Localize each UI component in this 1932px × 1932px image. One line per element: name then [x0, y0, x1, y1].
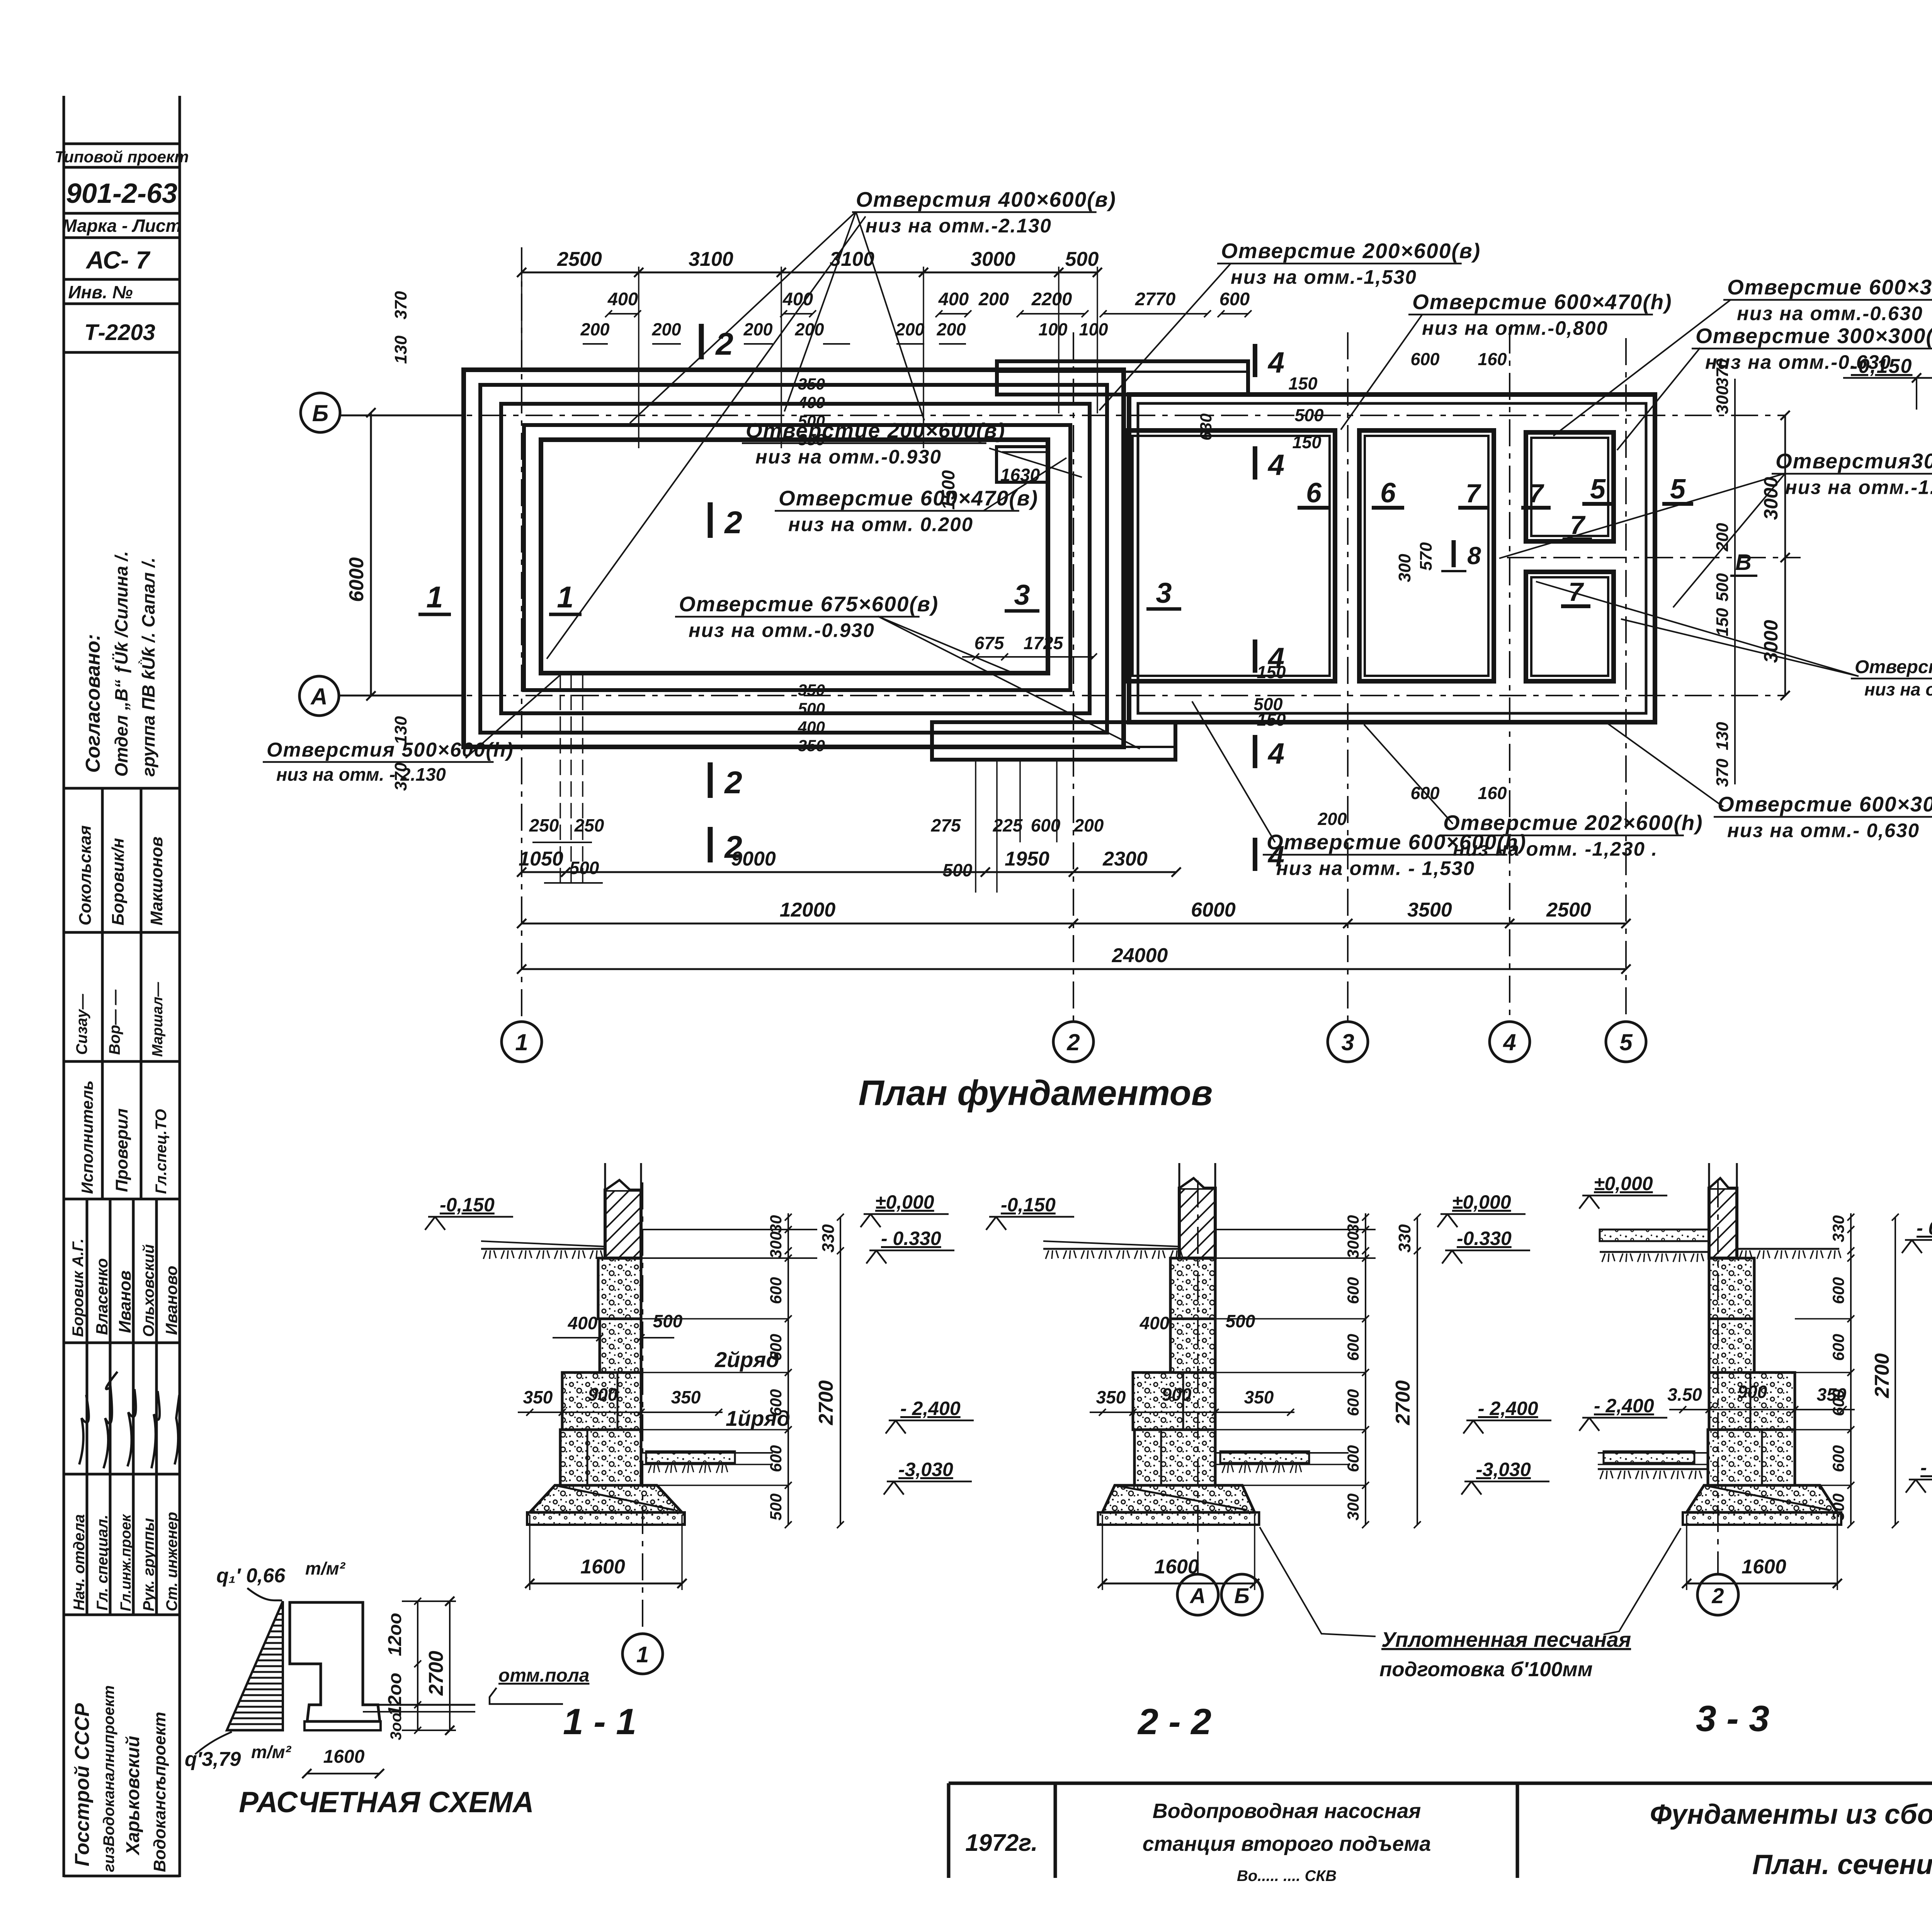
- 1-1 course extension lines: [641, 1318, 788, 1320]
- svg-text:600: 600: [767, 1334, 785, 1361]
- svg-text:600: 600: [767, 1445, 785, 1472]
- svg-text:500: 500: [767, 1493, 785, 1520]
- svg-text:600: 600: [1829, 1445, 1847, 1472]
- load triangle: [227, 1601, 283, 1730]
- svg-text:200: 200: [1317, 809, 1347, 829]
- svg-text:1600: 1600: [323, 1747, 365, 1767]
- svg-text:3: 3: [1014, 579, 1030, 611]
- plan: room 3: [1127, 430, 1335, 681]
- bottom dim row 24000: [522, 968, 1626, 970]
- svg-text:низ на отм.-0,630: низ на отм.-0,630: [1864, 679, 1932, 699]
- svg-text:Иванов: Иванов: [116, 1270, 134, 1333]
- svg-text:500: 500: [1294, 405, 1323, 425]
- svg-text:-0,150: -0,150: [440, 1194, 495, 1216]
- svg-text:- 0.330: - 0.330: [881, 1228, 941, 1249]
- dims 12oo/12oo/3oo and 2700: [417, 1601, 418, 1730]
- svg-text:Водопроводная насосная: Водопроводная насосная: [1153, 1799, 1421, 1823]
- svg-text:160: 160: [1478, 349, 1507, 369]
- svg-text:Отверстие 600×470(h): Отверстие 600×470(h): [1412, 290, 1672, 314]
- svg-text:12oo: 12oo: [385, 1673, 405, 1716]
- sheet left title-block sidebar: [64, 96, 180, 1877]
- svg-text:низ на отм.-1.230: низ на отм.-1.230: [1785, 476, 1932, 498]
- axis circle Б: [301, 393, 340, 432]
- svg-text:Отверстие 600×300(h): Отверстие 600×300(h): [1718, 792, 1932, 816]
- svg-text:низ на отм.- 0,630: низ на отм.- 0,630: [1727, 819, 1920, 841]
- 1-1 wall top continuation: [604, 1163, 606, 1190]
- svg-text:Отверстия300×600(h): Отверстия300×600(h): [1776, 449, 1932, 473]
- svg-text:500: 500: [1065, 248, 1099, 270]
- plan: room 7 bottom: [1526, 572, 1614, 681]
- svg-text:130: 130: [391, 335, 410, 364]
- svg-text:Водокансѣпроект: Водокансѣпроект: [150, 1712, 169, 1872]
- svg-text:Вор— —: Вор— —: [106, 989, 123, 1055]
- svg-text:Сизау—: Сизау—: [73, 993, 90, 1055]
- svg-text:-0.330: -0.330: [1457, 1228, 1512, 1249]
- svg-text:Отверстие 600×600(h): Отверстие 600×600(h): [1267, 830, 1527, 854]
- svg-text:- 0.330: - 0.330: [1917, 1217, 1932, 1239]
- svg-text:низ на отм.-0.630: низ на отм.-0.630: [1737, 302, 1923, 324]
- svg-text:675: 675: [975, 633, 1005, 653]
- svg-text:3000: 3000: [971, 248, 1015, 270]
- svg-text:370: 370: [391, 291, 410, 320]
- svg-text:Отверстие 675×600(в): Отверстие 675×600(в): [679, 592, 939, 616]
- svg-text:низ на отм.-0.930: низ на отм.-0.930: [689, 619, 875, 641]
- svg-text:отм.пола: отм.пола: [498, 1665, 589, 1686]
- section cut marks |2: [699, 324, 704, 359]
- svg-text:2500: 2500: [557, 248, 602, 270]
- svg-text:300: 300: [1829, 1493, 1847, 1520]
- svg-text:2: 2: [724, 830, 742, 865]
- svg-text:1050: 1050: [519, 848, 563, 870]
- svg-text:6: 6: [1380, 478, 1396, 509]
- svg-text:30: 30: [1344, 1215, 1362, 1233]
- 1-1 tufts under basement slab: [648, 1465, 660, 1473]
- 3-3 right dim chain: [1850, 1213, 1852, 1525]
- bottom dim row 12000/6000/3500/2500: [522, 923, 1626, 925]
- 2-2 right dim chain: [1365, 1213, 1366, 1525]
- svg-text:630: 630: [1197, 413, 1215, 440]
- svg-text:1600: 1600: [1742, 1556, 1786, 1578]
- plan: left block nested wall rectangles: [464, 370, 1124, 747]
- 1-1 wall: [605, 1190, 641, 1258]
- 3-3 block courses: [1709, 1258, 1754, 1319]
- svg-text:600: 600: [1344, 1334, 1362, 1361]
- svg-text:350: 350: [798, 736, 825, 755]
- svg-text:План фундаментов: План фундаментов: [859, 1073, 1213, 1113]
- svg-text:400: 400: [607, 289, 638, 309]
- svg-text:2700: 2700: [1392, 1380, 1414, 1425]
- svg-text:300: 300: [767, 1231, 785, 1259]
- axis circles 1-5: [502, 1022, 542, 1062]
- svg-text:200: 200: [651, 320, 681, 339]
- svg-text:-3,030: -3,030: [1476, 1459, 1531, 1480]
- vertical dim 6000 between А and Б: [370, 413, 372, 696]
- svg-text:600: 600: [1344, 1445, 1362, 1472]
- top dimension line 2500/3100/3100/3000/500: [522, 272, 1097, 274]
- svg-text:350: 350: [1244, 1387, 1274, 1407]
- svg-text:Отверстия 400×600(в): Отверстия 400×600(в): [856, 187, 1116, 211]
- svg-text:200: 200: [794, 320, 824, 339]
- svg-text:Б: Б: [312, 400, 328, 426]
- svg-text:2200: 2200: [1031, 289, 1072, 309]
- svg-text:200: 200: [1074, 815, 1104, 835]
- svg-text:1950: 1950: [1005, 848, 1049, 870]
- svg-text:Во..... .... СКВ: Во..... .... СКВ: [1237, 1867, 1337, 1884]
- plan: room 6: [1359, 430, 1494, 681]
- 2-2 footing and slab: [1102, 1485, 1255, 1512]
- 1-1 basement floor line right: [641, 1452, 773, 1454]
- svg-text:400: 400: [1139, 1313, 1170, 1333]
- plan: top annex: [997, 361, 1248, 395]
- svg-text:Сокольская: Сокольская: [76, 825, 95, 925]
- svg-text:500: 500: [943, 860, 973, 880]
- sidebar signatures row2 (squiggles): [79, 1372, 179, 1468]
- svg-text:400: 400: [938, 289, 969, 309]
- svg-text:Ст. инженер: Ст. инженер: [163, 1512, 180, 1611]
- svg-text:АС- 7: АС- 7: [85, 246, 151, 274]
- svg-text:5: 5: [1619, 1029, 1633, 1055]
- svg-text:3oo: 3oo: [388, 1713, 405, 1740]
- svg-text:2770: 2770: [1135, 289, 1176, 309]
- svg-text:6: 6: [1306, 478, 1322, 509]
- svg-text:3 - 3: 3 - 3: [1696, 1698, 1769, 1739]
- bottom dim row 1050/9000/1950/2300: [522, 871, 1176, 873]
- svg-text:3: 3: [1156, 577, 1172, 609]
- svg-text:1: 1: [515, 1029, 528, 1055]
- svg-text:150: 150: [1288, 374, 1317, 393]
- svg-text:12oo: 12oo: [385, 1613, 405, 1656]
- svg-text:200: 200: [895, 320, 924, 339]
- svg-text:600: 600: [1344, 1389, 1362, 1416]
- svg-text:2500: 2500: [1546, 899, 1591, 921]
- svg-text:1725: 1725: [1024, 633, 1064, 653]
- svg-text:План. сечения: План. сечения: [1752, 1849, 1932, 1880]
- svg-text:Ольховский: Ольховский: [140, 1244, 157, 1337]
- svg-text:1600: 1600: [580, 1556, 625, 1578]
- axis dash-dot lines: [340, 415, 1785, 416]
- 1-1 ground left: [481, 1248, 605, 1250]
- svg-text:100: 100: [1038, 320, 1067, 339]
- svg-text:200: 200: [580, 320, 609, 339]
- svg-text:901-2-63: 901-2-63: [66, 178, 177, 209]
- svg-text:q′3,79: q′3,79: [185, 1748, 241, 1770]
- svg-text:±0,000: ±0,000: [875, 1191, 934, 1213]
- svg-text:600: 600: [767, 1277, 785, 1304]
- svg-text:160: 160: [1478, 783, 1507, 803]
- svg-text:600: 600: [767, 1389, 785, 1416]
- svg-text:1: 1: [636, 1642, 649, 1667]
- svg-text:4: 4: [1267, 737, 1284, 770]
- svg-text:2: 2: [1711, 1583, 1724, 1608]
- svg-text:Боровик А.Г.: Боровик А.Г.: [70, 1238, 87, 1337]
- svg-text:600: 600: [1344, 1277, 1362, 1304]
- svg-text:350: 350: [1096, 1387, 1126, 1407]
- svg-text:- 2,400: - 2,400: [900, 1398, 961, 1419]
- section cut marks |4: [1253, 344, 1257, 377]
- svg-text:Исполнитель: Исполнитель: [78, 1080, 96, 1194]
- plan: bottom annex: [932, 722, 1175, 760]
- svg-text:гизВодоканалнипроект: гизВодоканалнипроект: [100, 1685, 117, 1872]
- svg-text:т/м²: т/м²: [305, 1558, 346, 1578]
- svg-text:6000: 6000: [345, 557, 368, 602]
- svg-text:1 - 1: 1 - 1: [563, 1701, 636, 1742]
- svg-text:РАСЧЕТНАЯ СХЕМА: РАСЧЕТНАЯ СХЕМА: [239, 1786, 534, 1819]
- svg-text:150: 150: [1292, 432, 1321, 452]
- svg-text:Проверил: Проверил: [112, 1109, 131, 1192]
- svg-text:±0,000: ±0,000: [1452, 1191, 1511, 1213]
- 1-1 block courses: [598, 1258, 641, 1319]
- svg-text:станция второго подъема: станция второго подъема: [1143, 1832, 1431, 1855]
- foundation profile: [290, 1602, 380, 1721]
- svg-text:2700: 2700: [815, 1380, 837, 1425]
- plan: middle+right block outer double wall: [1129, 395, 1655, 722]
- svg-text:900: 900: [1738, 1382, 1767, 1402]
- svg-text:600: 600: [1410, 349, 1439, 369]
- svg-text:±0,000: ±0,000: [1594, 1173, 1653, 1194]
- 2-2 axis + circles А Б: [1197, 1180, 1199, 1574]
- svg-text:1600: 1600: [1154, 1556, 1199, 1578]
- svg-text:570: 570: [1417, 542, 1435, 571]
- 2-2 basement floor right: [1215, 1452, 1349, 1454]
- bottom title block: [949, 1783, 1932, 1878]
- svg-text:30: 30: [767, 1215, 785, 1233]
- svg-text:А: А: [1189, 1583, 1206, 1608]
- leader lines: [630, 212, 856, 423]
- svg-text:1972г.: 1972г.: [965, 1830, 1037, 1856]
- svg-text:200: 200: [743, 320, 772, 339]
- svg-text:900: 900: [588, 1384, 618, 1405]
- svg-text:2 - 2: 2 - 2: [1137, 1701, 1211, 1742]
- svg-text:600: 600: [1829, 1389, 1847, 1416]
- svg-text:4: 4: [1267, 449, 1284, 481]
- svg-text:500: 500: [570, 858, 599, 878]
- svg-text:900: 900: [1162, 1384, 1192, 1405]
- svg-text:1: 1: [426, 580, 443, 614]
- svg-text:т/м²: т/м²: [251, 1742, 292, 1762]
- corridor niche 1630: [997, 447, 1048, 482]
- svg-text:Отверстие 200×600(в): Отверстие 200×600(в): [746, 418, 1005, 442]
- svg-text:400: 400: [798, 393, 825, 412]
- svg-text:8: 8: [1467, 542, 1481, 570]
- svg-text:275: 275: [931, 815, 961, 835]
- svg-text:- 9,030: - 9,030: [1920, 1457, 1932, 1478]
- svg-text:Отверстие 600×300(h): Отверстие 600×300(h): [1727, 275, 1932, 299]
- svg-text:300: 300: [1344, 1493, 1362, 1520]
- svg-text:4: 4: [1503, 1029, 1516, 1055]
- svg-text:группа ПВ ƙǛƙ /. Сапал /.: группа ПВ ƙǛƙ /. Сапал /.: [138, 558, 158, 777]
- svg-text:7: 7: [1466, 479, 1481, 508]
- 1-1 right dim chain: [787, 1213, 789, 1525]
- svg-text:300: 300: [1395, 554, 1414, 582]
- svg-text:низ на отм. - 1,530: низ на отм. - 1,530: [1276, 857, 1475, 879]
- svg-text:низ на отм.-0.930: низ на отм.-0.930: [755, 446, 942, 468]
- svg-text:Марка - Лист: Марка - Лист: [62, 216, 181, 236]
- svg-text:3: 3: [1341, 1029, 1354, 1055]
- svg-text:Т-2203: Т-2203: [84, 320, 155, 345]
- 3-3 ground right: [1737, 1248, 1839, 1250]
- svg-text:3100: 3100: [689, 248, 733, 270]
- svg-text:2: 2: [724, 765, 742, 800]
- svg-text:А: А: [310, 684, 327, 709]
- svg-text:500: 500: [1713, 573, 1732, 602]
- 2-2 course extension lines: [1215, 1318, 1366, 1320]
- svg-text:2700: 2700: [1871, 1353, 1893, 1398]
- svg-text:подготовка б′100мм: подготовка б′100мм: [1379, 1658, 1593, 1681]
- svg-text:600: 600: [1829, 1334, 1847, 1361]
- svg-text:600: 600: [1829, 1277, 1847, 1304]
- svg-text:250: 250: [529, 815, 559, 835]
- svg-text:Отверстие 600×470(в): Отверстие 600×470(в): [779, 486, 1038, 510]
- svg-text:24000: 24000: [1112, 944, 1168, 967]
- 3-3 wall: [1709, 1188, 1737, 1258]
- svg-text:500: 500: [798, 699, 825, 718]
- 1-1 basement floor slab: [646, 1451, 735, 1463]
- projection dashed verticals bottom-left: [560, 673, 561, 889]
- svg-text:350: 350: [798, 681, 825, 699]
- svg-text:250: 250: [574, 815, 604, 835]
- svg-text:3500: 3500: [1407, 899, 1452, 921]
- svg-text:низ на отм.-2.130: низ на отм.-2.130: [866, 214, 1052, 236]
- svg-text:-3,030: -3,030: [898, 1459, 953, 1480]
- svg-text:400: 400: [568, 1313, 598, 1333]
- svg-text:370: 370: [1713, 759, 1732, 787]
- svg-text:Харьковский: Харьковский: [123, 1736, 143, 1856]
- svg-text:4: 4: [1267, 642, 1284, 675]
- 2-2 floor lines right: [1215, 1229, 1376, 1230]
- svg-text:Отверстие 200×600(в): Отверстие 200×600(в): [1221, 239, 1481, 263]
- svg-text:q₁′ 0,66: q₁′ 0,66: [216, 1565, 286, 1587]
- svg-text:- 2,400: - 2,400: [1478, 1398, 1538, 1419]
- svg-text:Госстрой СССР: Госстрой СССР: [71, 1703, 94, 1866]
- 3-3 basement floor left: [1598, 1452, 1708, 1454]
- svg-text:Маршал—: Маршал—: [150, 982, 166, 1057]
- svg-text:Гл.инж.проек: Гл.инж.проек: [118, 1514, 134, 1611]
- svg-text:-0,150: -0,150: [1851, 355, 1912, 378]
- svg-text:Боровик/н: Боровик/н: [109, 838, 128, 925]
- svg-text:350: 350: [523, 1387, 553, 1407]
- svg-text:Отверстие 300×300(h): Отверстие 300×300(h): [1855, 657, 1932, 677]
- svg-text:150: 150: [1713, 608, 1732, 636]
- svg-text:350: 350: [671, 1387, 701, 1407]
- svg-text:2: 2: [715, 327, 733, 362]
- svg-text:200: 200: [978, 289, 1009, 309]
- svg-text:низ на отм. - 2.130: низ на отм. - 2.130: [276, 764, 446, 785]
- svg-text:2: 2: [724, 505, 742, 540]
- svg-text:низ на отм.-0,800: низ на отм.-0,800: [1422, 317, 1608, 339]
- 3-3 axis + circle 2: [1717, 1180, 1719, 1574]
- 3-3 footing and slab: [1687, 1485, 1837, 1512]
- svg-text:2700: 2700: [425, 1651, 447, 1696]
- svg-text:330: 330: [819, 1224, 838, 1253]
- section cut mark |8: [1452, 540, 1456, 567]
- svg-text:6000: 6000: [1191, 899, 1236, 921]
- 1-1 floor lines right: [641, 1229, 817, 1230]
- svg-text:7: 7: [1529, 479, 1544, 508]
- svg-text:300: 300: [1713, 386, 1732, 414]
- 2-2 tufts under basement slab: [1222, 1465, 1233, 1473]
- svg-text:низ на отм.-1,530: низ на отм.-1,530: [1231, 266, 1417, 288]
- svg-text:низ на отм. 0.200: низ на отм. 0.200: [788, 513, 973, 535]
- svg-text:В: В: [1735, 550, 1752, 575]
- svg-text:350: 350: [798, 375, 825, 393]
- svg-text:- 2,400: - 2,400: [1594, 1395, 1654, 1417]
- svg-text:Уплотненная песчаная: Уплотненная песчаная: [1381, 1628, 1631, 1651]
- svg-text:Иваново: Иваново: [162, 1266, 180, 1335]
- 2-2 ground left: [1043, 1248, 1179, 1250]
- svg-text:1: 1: [557, 580, 573, 614]
- svg-text:Власенко: Власенко: [93, 1258, 111, 1335]
- svg-text:Инв. №: Инв. №: [68, 282, 133, 302]
- svg-text:Отверстия 500×600(h): Отверстия 500×600(h): [267, 739, 514, 761]
- svg-text:Б: Б: [1234, 1583, 1250, 1608]
- svg-text:Фундаменты из сборных блоков.: Фундаменты из сборных блоков.: [1650, 1799, 1932, 1830]
- svg-text:4: 4: [1267, 346, 1284, 379]
- svg-text:500: 500: [653, 1311, 683, 1331]
- 3-3 floor slab left: [1600, 1230, 1709, 1241]
- svg-text:5: 5: [1670, 474, 1686, 505]
- 3-3 course extension lines: [1795, 1318, 1851, 1320]
- svg-text:-0,150: -0,150: [1001, 1194, 1056, 1216]
- 1-1 axis + circle 1: [642, 1182, 643, 1634]
- svg-text:12000: 12000: [780, 899, 836, 921]
- svg-text:5: 5: [1590, 474, 1606, 505]
- svg-text:Отдел „В“ ƒÜƙ /Силина /.: Отдел „В“ ƒÜƙ /Силина /.: [111, 551, 131, 777]
- svg-text:330: 330: [1395, 1224, 1414, 1253]
- 2-2 block courses: [1170, 1258, 1215, 1319]
- axis circle А: [299, 676, 339, 716]
- 1-1 footing and slab: [530, 1485, 682, 1512]
- svg-text:200: 200: [936, 320, 966, 339]
- svg-text:300: 300: [1344, 1231, 1362, 1259]
- svg-text:400: 400: [782, 289, 813, 309]
- svg-text:500: 500: [1226, 1311, 1255, 1331]
- svg-text:150: 150: [1257, 710, 1286, 730]
- right-side dim chains: [1734, 379, 1736, 784]
- svg-text:600: 600: [1031, 815, 1061, 835]
- svg-text:400: 400: [798, 718, 825, 736]
- plan: room 7/5 top: [1526, 432, 1614, 541]
- svg-text:2300: 2300: [1102, 848, 1148, 870]
- svg-text:Отверстие 300×300(h): Отверстие 300×300(h): [1696, 324, 1932, 348]
- svg-text:Рук. группы: Рук. группы: [140, 1518, 157, 1611]
- svg-text:2: 2: [1066, 1029, 1080, 1055]
- svg-text:100: 100: [1079, 320, 1108, 339]
- svg-text:Гл.спец.ТО: Гл.спец.ТО: [153, 1109, 170, 1194]
- svg-text:Гл. специал.: Гл. специал.: [94, 1515, 111, 1611]
- svg-text:3.50: 3.50: [1667, 1384, 1702, 1405]
- svg-text:Макшонов: Макшонов: [147, 837, 166, 925]
- svg-text:Нач. отдела: Нач. отдела: [71, 1514, 88, 1611]
- svg-text:330: 330: [1829, 1215, 1847, 1242]
- svg-text:Типовой проект: Типовой проект: [54, 148, 189, 166]
- svg-text:Согласовано:: Согласовано:: [82, 634, 104, 773]
- profile floor line right: [363, 1704, 475, 1706]
- 2-2 wall: [1179, 1188, 1215, 1258]
- svg-text:130: 130: [1713, 722, 1732, 750]
- svg-text:600: 600: [1219, 289, 1250, 309]
